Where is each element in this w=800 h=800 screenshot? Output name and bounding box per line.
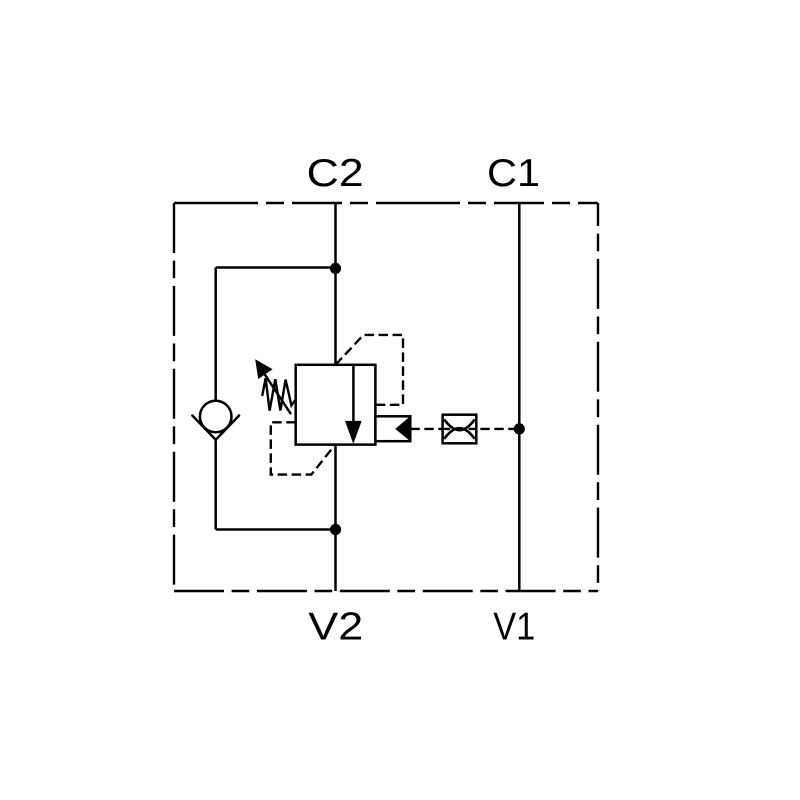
pilot line bottom (dashed) drain loop <box>271 422 335 474</box>
flow path arrowhead <box>345 421 362 444</box>
pilot line top (dashed) from inlet to spring chamber <box>336 335 404 405</box>
adjustment arrow shaft through spring <box>262 370 292 415</box>
orifice O1 square <box>443 415 477 444</box>
junction node at C1 / pilot line <box>514 423 525 434</box>
adjustment arrowhead <box>255 359 272 379</box>
check valve CV1 seat <box>192 416 239 440</box>
wire C1 to V1 line <box>518 203 521 591</box>
spring (adjustable) zigzag <box>262 378 296 410</box>
wire check valve branch left vertical upper <box>214 268 217 402</box>
wire C2 port to valve inlet <box>334 203 337 365</box>
enclosure border bottom (dashed) <box>174 590 598 592</box>
svg-text:C1: C1 <box>487 152 540 195</box>
pilot line (dashed) from piston to C1 via orifice <box>410 428 519 430</box>
svg-text:C2: C2 <box>307 152 364 195</box>
wire valve outlet to V2 port <box>334 445 337 591</box>
enclosure border top (dashed) <box>174 202 598 204</box>
orifice top arc <box>444 419 475 430</box>
svg-text:V1: V1 <box>493 606 535 649</box>
svg-text:V2: V2 <box>308 606 363 649</box>
orifice bottom arc <box>444 428 475 439</box>
wire check valve branch top horizontal <box>216 266 336 269</box>
pilot piston box on right of valve <box>375 416 410 441</box>
enclosure border right (dashed) <box>597 203 599 591</box>
junction node at C2 / check-valve branch <box>330 263 341 274</box>
relief valve main body V1 (square envelope) <box>296 365 376 445</box>
check valve CV1 poppet circle <box>200 401 232 433</box>
orifice dashed line crossing square <box>443 428 477 430</box>
enclosure border left (dashed) <box>173 203 175 591</box>
wire check valve branch left vertical lower <box>214 440 217 530</box>
junction node at V2 / check-valve branch <box>330 524 341 535</box>
wire check valve branch bottom horizontal <box>216 528 336 531</box>
pilot actuation solid triangle <box>395 416 410 441</box>
flow path arrow shaft inside valve <box>352 365 355 424</box>
